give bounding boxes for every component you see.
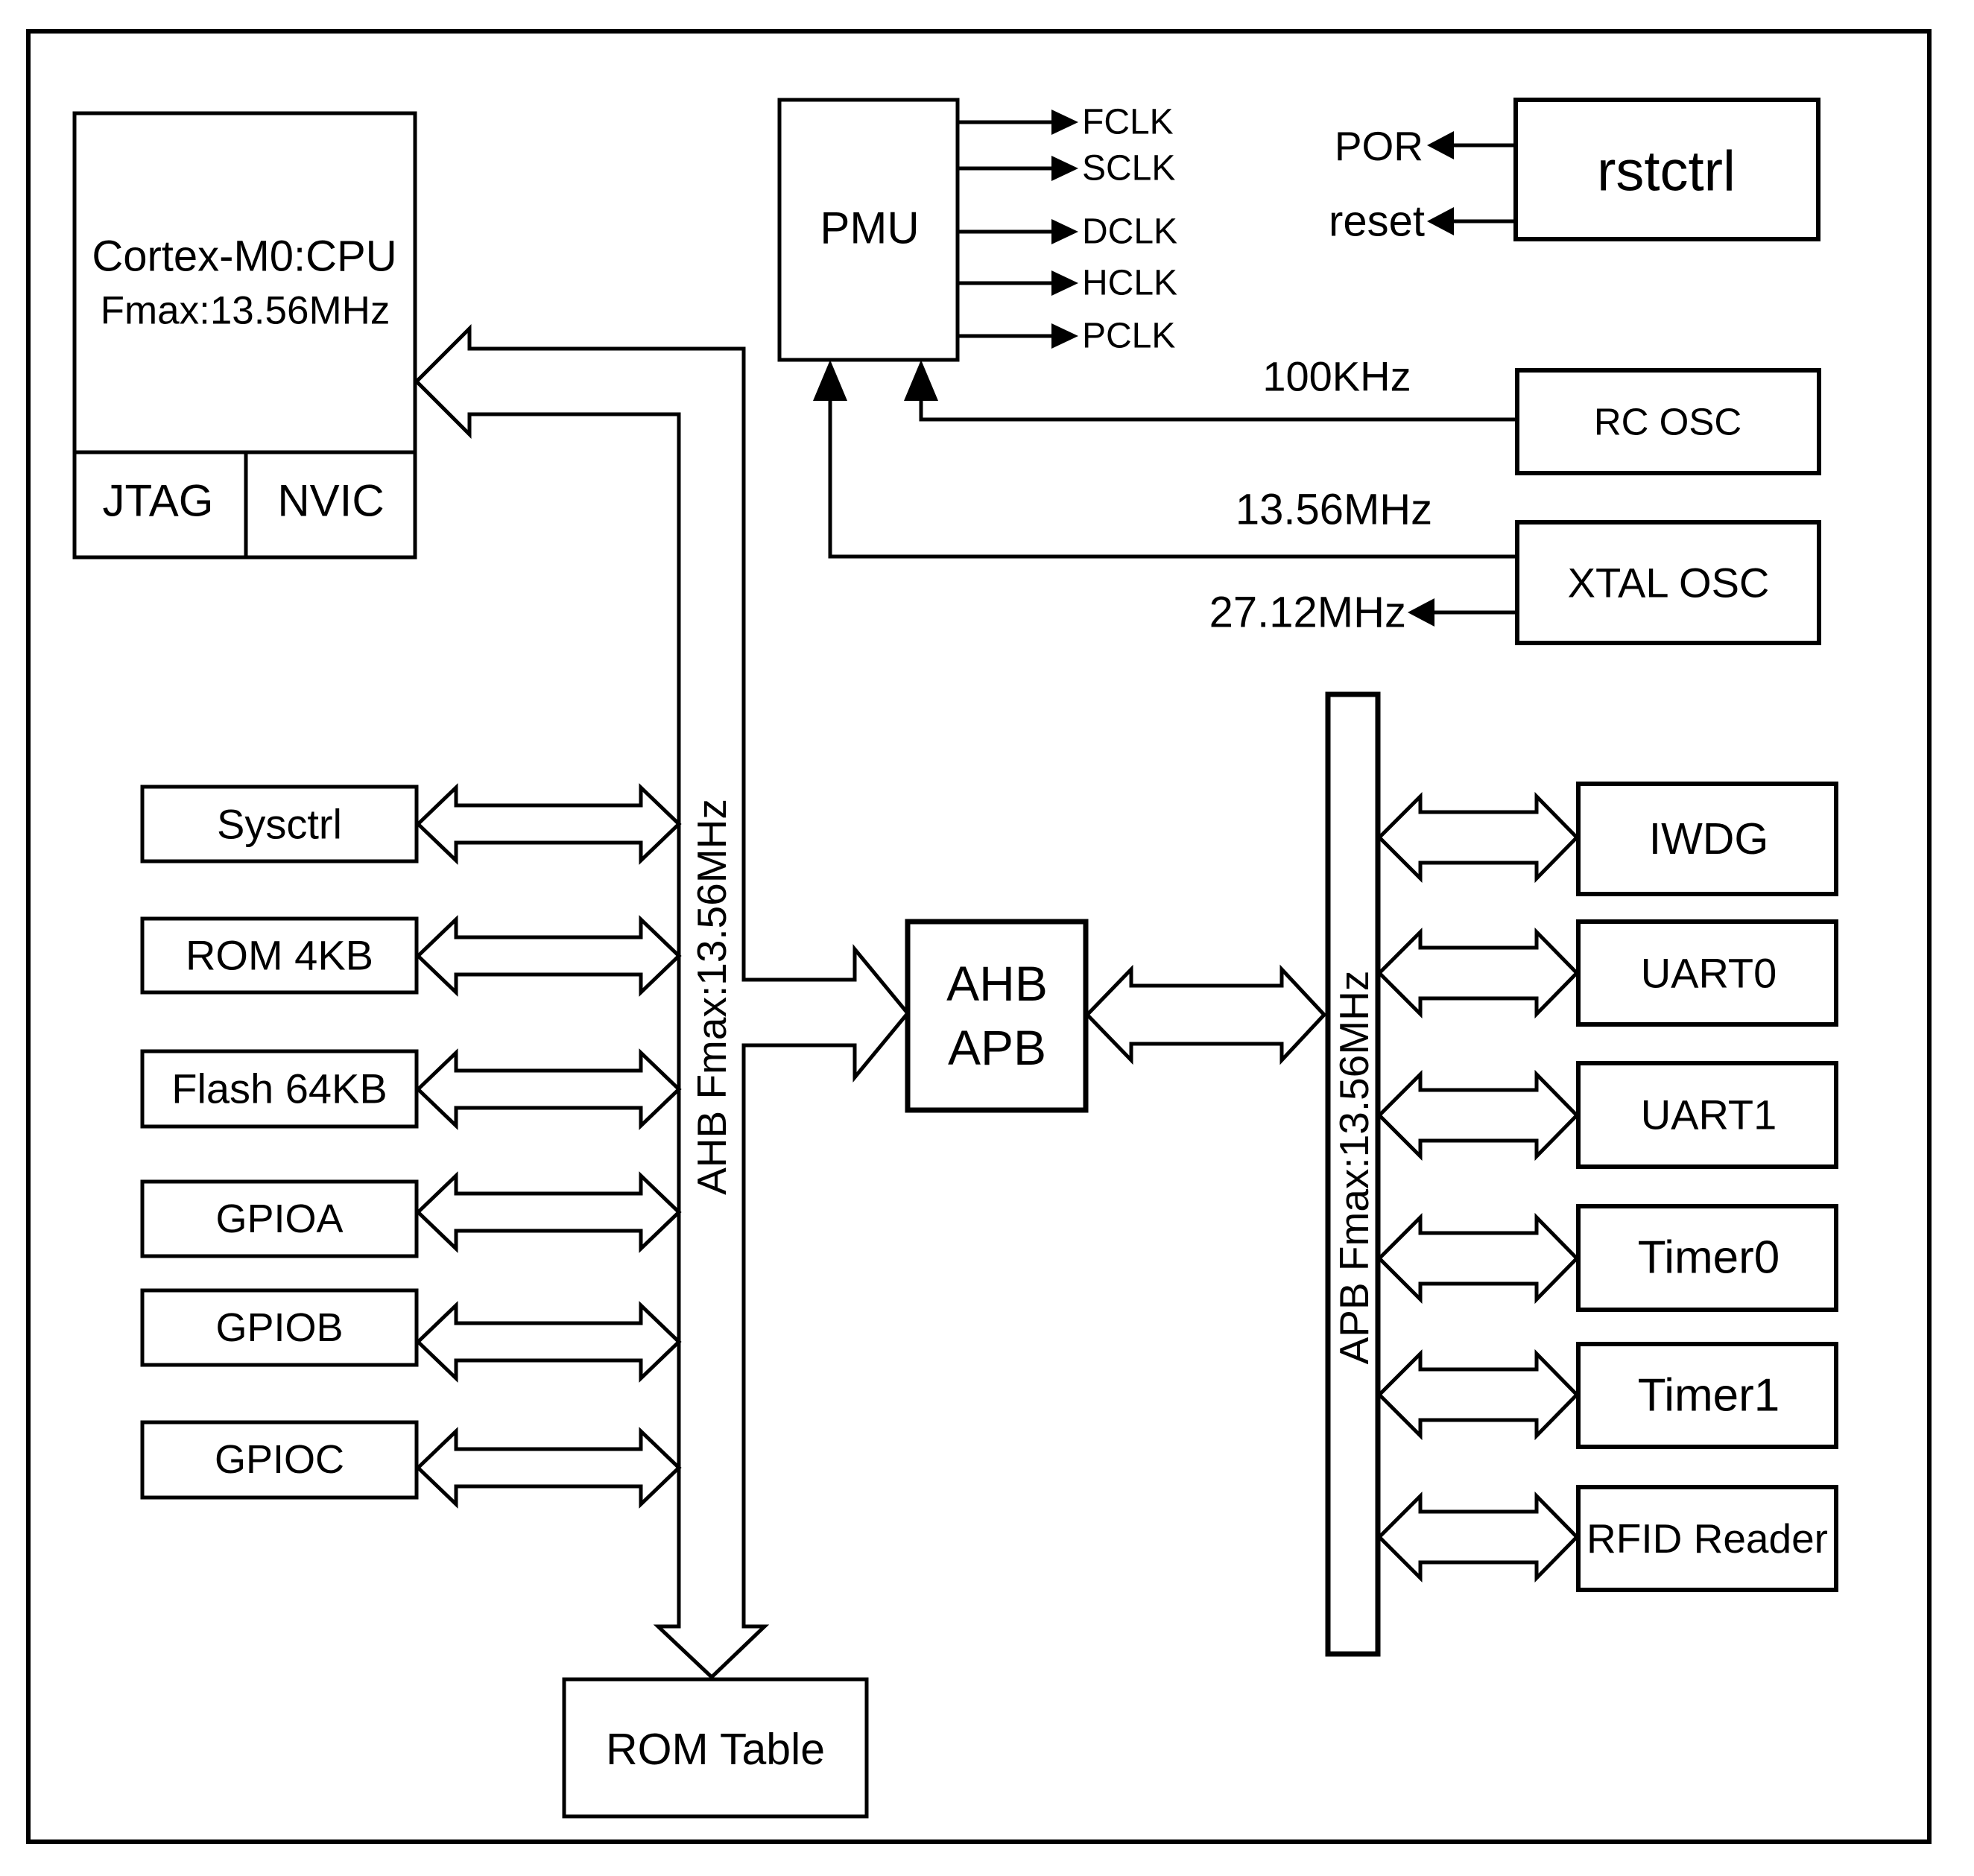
svg-text:ROM 4KB: ROM 4KB — [186, 932, 373, 979]
wire AHB double arrow to ROM 4KB — [418, 919, 679, 992]
wire APB double arrow to RFID Reader — [1379, 1496, 1577, 1578]
block GPIOB — [142, 1290, 417, 1365]
svg-text:NVIC: NVIC — [277, 476, 384, 526]
svg-text:Sysctrl: Sysctrl — [217, 801, 342, 848]
svg-text:GPIOC: GPIOC — [215, 1437, 344, 1482]
wire AHB double arrow to Flash 64KB — [418, 1053, 679, 1126]
svg-text:PCLK: PCLK — [1082, 317, 1175, 356]
svg-text:rstctrl: rstctrl — [1597, 140, 1736, 203]
svg-text:UART0: UART0 — [1641, 950, 1777, 997]
svg-text:13.56MHz: 13.56MHz — [1236, 486, 1432, 534]
block rstctrl — [1516, 100, 1818, 239]
block Sysctrl — [142, 787, 417, 861]
svg-text:JTAG: JTAG — [103, 476, 214, 526]
block RFID Reader — [1578, 1487, 1836, 1590]
block GPIOC — [142, 1422, 417, 1498]
wire AHB double arrow to GPIOB — [418, 1305, 679, 1378]
block IWDG — [1578, 784, 1836, 894]
wire reset from rstctrl — [1329, 197, 1516, 246]
wire APB double arrow to IWDG — [1379, 796, 1577, 878]
svg-text:FCLK: FCLK — [1082, 103, 1174, 142]
svg-text:GPIOA: GPIOA — [215, 1197, 343, 1241]
wire AHB double arrow to Sysctrl — [418, 788, 679, 861]
svg-text:APB: APB — [948, 1020, 1046, 1075]
svg-text:AHB: AHB — [946, 956, 1048, 1011]
svg-text:RFID Reader: RFID Reader — [1587, 1515, 1828, 1562]
svg-text:SCLK: SCLK — [1082, 149, 1175, 188]
wire AHB double arrow to GPIOA — [418, 1176, 679, 1249]
wire APB double arrow to UART1 — [1379, 1074, 1577, 1156]
svg-text:reset: reset — [1329, 197, 1425, 246]
block RC OSC — [1517, 370, 1819, 473]
svg-text:IWDG: IWDG — [1649, 814, 1769, 863]
svg-text:UART1: UART1 — [1641, 1091, 1777, 1138]
block ROM 4KB — [142, 919, 417, 992]
wire double arrow AHB/APB bridge to APB bus — [1087, 969, 1324, 1060]
svg-text:100KHz: 100KHz — [1262, 353, 1411, 400]
svg-text:Cortex-M0:CPU: Cortex-M0:CPU — [92, 232, 396, 281]
block XTAL OSC — [1517, 522, 1819, 643]
wire 13.56MHz clock into PMU (from XTAL OSC) — [813, 360, 1517, 557]
svg-text:DCLK: DCLK — [1082, 212, 1177, 252]
svg-text:ROM Table: ROM Table — [606, 1725, 825, 1774]
svg-text:APB Fmax:13.56MHz: APB Fmax:13.56MHz — [1331, 971, 1377, 1365]
block UART0 — [1578, 922, 1836, 1024]
wire HCLK output from PMU — [958, 264, 1177, 303]
block Timer1 — [1578, 1344, 1836, 1447]
wire DCLK output from PMU — [958, 212, 1177, 252]
block Cortex-M0 CPU — [75, 113, 415, 557]
wire APB double arrow to Timer0 — [1379, 1217, 1577, 1299]
block UART1 — [1578, 1063, 1836, 1167]
wire FCLK output from PMU — [958, 103, 1174, 142]
wire APB double arrow to UART0 — [1379, 932, 1577, 1014]
block PMU — [779, 100, 958, 360]
wire APB double arrow to Timer1 — [1379, 1354, 1577, 1436]
block GPIOA — [142, 1182, 417, 1256]
svg-text:27.12MHz: 27.12MHz — [1209, 589, 1406, 637]
svg-text:Fmax:13.56MHz: Fmax:13.56MHz — [101, 289, 390, 333]
svg-text:GPIOB: GPIOB — [215, 1305, 343, 1350]
svg-text:Flash 64KB: Flash 64KB — [171, 1065, 387, 1112]
bus AHB (arrow into CPU, branch to AHB/APB bridge, arrow down to ROM Table) — [417, 329, 908, 1677]
wire 27.12MHz from XTAL OSC — [1209, 589, 1517, 637]
wire SCLK output from PMU — [958, 149, 1175, 188]
wire POR from rstctrl — [1335, 123, 1516, 169]
wire PCLK output from PMU — [958, 317, 1175, 356]
svg-text:Timer1: Timer1 — [1638, 1370, 1780, 1422]
bus APB — [1328, 694, 1378, 1654]
wire 100KHz clock into PMU (from RC OSC) — [904, 353, 1517, 420]
block ROM Table — [564, 1679, 867, 1816]
block Timer0 — [1578, 1206, 1836, 1310]
svg-text:RC OSC: RC OSC — [1594, 401, 1742, 443]
svg-text:PMU: PMU — [820, 203, 919, 253]
svg-text:XTAL OSC: XTAL OSC — [1568, 560, 1770, 606]
svg-text:POR: POR — [1335, 123, 1423, 169]
wire AHB double arrow to GPIOC — [418, 1431, 679, 1504]
svg-text:HCLK: HCLK — [1082, 264, 1177, 303]
svg-text:AHB Fmax:13.56MHz: AHB Fmax:13.56MHz — [689, 799, 735, 1195]
svg-text:Timer0: Timer0 — [1638, 1232, 1780, 1284]
block AHB/APB bridge — [908, 922, 1086, 1110]
block Flash 64KB — [142, 1051, 417, 1126]
